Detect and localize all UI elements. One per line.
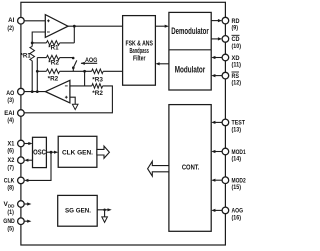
node row A vertical / AO line junction	[36, 90, 39, 93]
block FSK & ANS Bandpass Filter	[123, 16, 156, 86]
wire AI pin to op-amp U1 + input	[24, 20, 45, 22]
pin TEST (13)	[222, 119, 245, 133]
svg-text:EAI: EAI	[4, 110, 14, 117]
wire demodulator to CD pin	[211, 38, 219, 40]
op-amp U1	[45, 15, 68, 38]
wire MOD2 pin to CONT	[215, 179, 223, 181]
node U1 output junction	[73, 25, 76, 28]
svg-text:*R1: *R1	[20, 53, 31, 60]
svg-text:*R1: *R1	[48, 44, 59, 51]
resistor R2 right	[92, 84, 103, 89]
svg-text:(10): (10)	[232, 43, 242, 50]
pin MOD1 (14)	[222, 148, 246, 162]
svg-text:(13): (13)	[232, 126, 242, 133]
wire switch stub to row B	[72, 68, 74, 72]
op-amp U2	[45, 80, 70, 103]
wire row A vertical (x=37.3) to AO line	[36, 58, 38, 92]
wire GND stub arrow	[24, 220, 28, 222]
wire modulator to filter	[159, 63, 169, 65]
svg-text:(2): (2)	[7, 25, 14, 32]
wire junction down to CLK pin	[28, 152, 51, 180]
svg-text:*R3: *R3	[92, 77, 103, 84]
pin X2 (7)	[7, 157, 24, 172]
pin AO (3)	[6, 88, 24, 104]
node OSC output junction	[50, 151, 53, 154]
svg-text:(12): (12)	[232, 80, 242, 87]
wire U1 output to filter	[68, 25, 123, 27]
wire X1 pin to OSC	[24, 143, 29, 145]
pin X1 (6)	[7, 140, 24, 155]
hollow arrow from CONT pointing left	[148, 161, 169, 176]
wire U2 + input to ground	[70, 97, 75, 104]
pin CLK (8)	[4, 177, 24, 192]
wire R1 vertical down to AO line	[31, 61, 33, 92]
block Demodulator / Modulator	[169, 12, 211, 90]
node SG GEN branch	[103, 209, 106, 212]
svg-text:(15): (15)	[232, 184, 242, 191]
pin AOG (16)	[222, 207, 243, 221]
svg-text:(9): (9)	[232, 25, 239, 32]
block CONT.	[169, 105, 211, 232]
resistor R1 feedback	[46, 41, 59, 46]
node row B left junction	[36, 70, 39, 73]
svg-text:(7): (7)	[7, 164, 14, 171]
switch AOG contact top	[72, 57, 75, 60]
pin RD (9)	[222, 17, 240, 31]
wire demodulator to RD pin	[211, 20, 219, 22]
block SG GEN.	[58, 195, 97, 226]
resistor R2 row A	[46, 55, 59, 60]
svg-text:(8): (8)	[7, 185, 14, 192]
resistor R3	[92, 69, 104, 74]
resistor R2 row B	[46, 69, 59, 74]
block CLK GEN.	[58, 136, 97, 167]
svg-text:Filter: Filter	[133, 53, 146, 62]
node N1	[31, 42, 34, 45]
wire R2 right to EAI	[24, 86, 112, 113]
svg-text:AOG: AOG	[85, 57, 98, 64]
wire feedback row right segment	[60, 42, 75, 44]
pin GND (5)	[3, 218, 24, 233]
svg-text:X2: X2	[8, 157, 15, 164]
svg-text:X1: X1	[8, 141, 15, 148]
wire feedback row left segment to node N1	[32, 42, 46, 44]
svg-text:(14): (14)	[232, 156, 242, 163]
wire U1 output down to feedback row	[73, 26, 75, 43]
svg-text:(3): (3)	[7, 97, 14, 104]
svg-text:Modulator: Modulator	[175, 64, 206, 74]
wire SG GEN output arrow	[97, 209, 108, 211]
pin RS (12) with overline	[222, 72, 241, 87]
wire row A right segment to switch	[60, 57, 73, 59]
wire AOG pin to CONT	[215, 209, 223, 211]
wire MOD1 pin to CONT	[215, 151, 223, 153]
svg-text:(16): (16)	[232, 214, 242, 221]
svg-text:*R2: *R2	[48, 76, 59, 83]
switch AOG contact bottom	[72, 66, 75, 69]
wire TEST pin to CONT	[215, 121, 223, 123]
hollow arrow from CLK GEN pointing right	[97, 146, 110, 158]
chip boundary	[21, 2, 226, 245]
svg-text:OSC: OSC	[33, 149, 46, 156]
svg-text:(11): (11)	[232, 62, 242, 69]
pin XD (11)	[222, 54, 241, 68]
wire row A left segment	[37, 57, 46, 59]
pin VDD (1)	[4, 201, 25, 217]
wire U2 - input line	[70, 85, 92, 87]
wire XD pin to modulator	[215, 57, 223, 59]
svg-text:CONT.: CONT.	[182, 164, 200, 171]
svg-text:CLK: CLK	[4, 177, 15, 184]
svg-text:(5): (5)	[7, 225, 14, 232]
svg-text:AO: AO	[6, 90, 14, 97]
svg-text:SG GEN.: SG GEN.	[65, 208, 91, 215]
svg-text:CLK GEN.: CLK GEN.	[62, 150, 93, 157]
svg-text:(6): (6)	[7, 148, 14, 155]
wire SG GEN branch to ground	[104, 210, 106, 217]
pin MOD2 (15)	[222, 177, 246, 191]
wire row B to filter left edge	[103, 70, 122, 72]
wire row B left segment	[37, 70, 46, 72]
svg-text:*R2: *R2	[48, 60, 59, 67]
resistor R1 vertical	[30, 46, 35, 60]
wire RS pin to modulator	[215, 75, 223, 77]
wire filter to demodulator	[155, 25, 165, 27]
pin AI (2)	[7, 17, 24, 32]
svg-text:AI: AI	[8, 17, 14, 24]
switch AOG blade	[73, 60, 76, 67]
wire - node up to row B	[84, 71, 86, 86]
ground symbol U2	[72, 104, 78, 109]
svg-text:GND: GND	[3, 218, 15, 225]
node row B right junction	[83, 70, 86, 73]
svg-text:(4): (4)	[7, 117, 14, 124]
wire OSC to CLK GEN	[46, 151, 54, 153]
wire U2 output to AO pin	[24, 91, 45, 93]
block OSC	[33, 137, 47, 167]
wire N1 down to vertical resistor R1	[31, 43, 33, 47]
pin EAI (4)	[4, 110, 24, 125]
wire U1 - input to node N1	[32, 32, 45, 43]
node R1/AO line junction	[31, 90, 34, 93]
svg-text:(1): (1)	[7, 209, 14, 216]
svg-text:Demodulator: Demodulator	[171, 26, 209, 36]
wire OSC to X2 pin	[28, 159, 33, 161]
svg-text:*R2: *R2	[92, 90, 103, 97]
wire AOG control arrow	[81, 62, 97, 64]
wire row B middle segment	[60, 70, 92, 72]
pin CD (10) with overline	[222, 35, 241, 50]
wire VDD stub arrow	[24, 203, 28, 205]
ground symbol SG GEN	[102, 217, 108, 223]
